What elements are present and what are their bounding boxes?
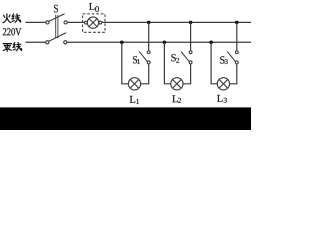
label S1 subscript: [137, 59, 140, 64]
label S3 subscript: [225, 59, 228, 64]
label S2 letter: [171, 54, 176, 61]
wire branch1 switch-side lower (S1 down to lamp): [140, 64, 148, 84]
junction dot live/branch1: [147, 21, 151, 25]
wire branch1 switch-side upper (live down to S1): [148, 22, 150, 51]
wire branch2 switch-side lower (S2 down to lamp): [183, 64, 191, 84]
switch S1: [139, 51, 150, 64]
label S2 subscript: [176, 58, 179, 63]
wire branch3 switch-side upper (live down to S3): [236, 22, 238, 51]
black bottom bar: [0, 107, 251, 130]
lamp L0: [85, 17, 102, 28]
label L3 letter: [217, 95, 222, 102]
wire branch3 lamp-side (neutral down to lamp): [211, 42, 218, 84]
label 220V: [3, 28, 21, 35]
switch S2: [181, 51, 192, 64]
junction dot live/branch2: [189, 21, 193, 25]
label L2 letter: [172, 95, 177, 102]
char ling (zero): [3, 43, 11, 45]
lamp L2: [171, 78, 183, 90]
label L0 subscript: [95, 6, 99, 12]
wire live bus left segment: [26, 21, 47, 23]
char xian (wire) first: [12, 14, 14, 19]
wire live bus right segment: [102, 21, 251, 23]
label huoxian (live wire) hand-drawn glyphs: [3, 14, 21, 23]
wire neutral bus left segment: [26, 41, 46, 43]
lamp L1: [128, 78, 140, 90]
label S: [54, 5, 58, 13]
switch S (double-pole knife switch): [46, 14, 67, 44]
label L1 letter: [130, 96, 135, 103]
lamp L3: [217, 78, 229, 90]
char huo (fire): [3, 14, 7, 23]
switch S3: [228, 51, 239, 64]
label S3 letter: [220, 56, 224, 63]
label L0 letter: [89, 3, 94, 10]
label L2 subscript: [178, 98, 181, 103]
label L1 subscript: [136, 99, 139, 104]
dashed enclosure around L0: [83, 14, 105, 32]
wire neutral bus right segment: [67, 41, 251, 43]
char xian (wire) second: [13, 43, 15, 48]
junction dot live/branch3: [235, 21, 239, 25]
label S1 letter: [133, 56, 137, 63]
junction dot neutral/branch3: [209, 41, 213, 45]
junction dot neutral/branch2: [163, 41, 167, 45]
label lingxian (neutral wire) hand-drawn glyphs: [3, 42, 22, 51]
wire branch1 lamp-side (neutral down to lamp): [122, 42, 129, 84]
wire live bus between S and L0: [67, 21, 85, 23]
junction dot neutral/branch1: [120, 41, 124, 45]
wire branch3 switch-side lower (S3 down to lamp): [229, 64, 237, 84]
label L3 subscript: [224, 98, 227, 103]
wire branch2 lamp-side (neutral down to lamp): [164, 42, 171, 84]
wire branch2 switch-side upper (live down to S2): [190, 22, 192, 51]
